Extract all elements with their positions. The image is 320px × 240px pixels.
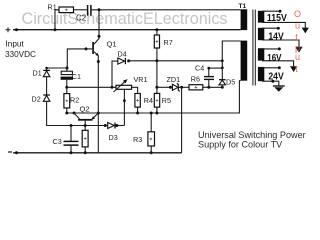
svg-text:C2: C2 xyxy=(76,14,87,23)
node 24V tap dot xyxy=(278,66,281,69)
svg-text:330VDC: 330VDC xyxy=(5,50,36,59)
svg-text:u: u xyxy=(295,52,300,62)
potentiometer VR1 xyxy=(114,79,132,92)
capacitor C1 electrolytic xyxy=(61,68,73,87)
wire 24V top tap xyxy=(262,67,279,69)
resistor R4 xyxy=(135,94,140,108)
wire 16V top tap xyxy=(262,48,279,50)
svg-text:T1: T1 xyxy=(239,3,247,10)
svg-text:CircuitSchematicELectronics: CircuitSchematicELectronics xyxy=(22,10,228,28)
node D4 anode stub junction xyxy=(111,86,114,89)
svg-text:R5: R5 xyxy=(162,96,171,105)
node rail input xyxy=(15,151,18,154)
node emitter resistor on rail xyxy=(84,151,87,154)
node C3 top xyxy=(70,124,73,127)
node C1 top junction xyxy=(66,67,69,70)
wire D4 anode stub xyxy=(112,61,118,87)
wire - rail (bottom return) xyxy=(13,152,182,154)
svg-text:C4: C4 xyxy=(195,63,204,72)
resistor Q2 emitter (unlabeled) xyxy=(82,126,88,153)
node corner at D5 branch xyxy=(221,59,224,62)
node C4 top xyxy=(207,67,210,70)
wire C4 top hook xyxy=(209,67,223,69)
resistor R7 xyxy=(154,30,159,61)
node 24V return dot xyxy=(271,80,274,83)
wire 115V top tap xyxy=(262,10,280,12)
output arrow 115V xyxy=(302,28,309,34)
wire ZD1 to R6 xyxy=(178,86,189,88)
wire D1 to D2 xyxy=(46,77,48,95)
wire C1 to R2 xyxy=(66,87,68,93)
svg-text:R2: R2 xyxy=(70,96,79,105)
wire + bus (top supply rail) xyxy=(13,29,241,31)
wire riser bus to R1 xyxy=(55,10,59,30)
svg-text:D2: D2 xyxy=(32,95,41,104)
wire R3 riser xyxy=(150,113,152,132)
svg-text:Input: Input xyxy=(6,40,25,49)
wire Q1 emitter vertical xyxy=(97,56,99,153)
capacitor C2 xyxy=(88,5,91,16)
transformer T1 core xyxy=(253,10,255,86)
resistor R1 xyxy=(59,7,74,13)
svg-text:C3: C3 xyxy=(53,137,62,146)
wire R6 to D5 node xyxy=(203,86,223,88)
ground 24V return xyxy=(273,86,285,92)
node snubber/collector junction xyxy=(98,8,101,11)
node C1 bottom junction xyxy=(65,86,68,89)
wire R7 node down to R5 xyxy=(156,61,158,94)
node D5 branch top xyxy=(221,66,224,69)
wire emitter node to VR1 xyxy=(67,86,116,88)
transformer primary winding bottom xyxy=(241,41,248,81)
input plus terminal xyxy=(6,27,11,32)
svg-text:u: u xyxy=(295,21,300,31)
capacitor C4 xyxy=(204,68,214,87)
wire 24V return to ground xyxy=(262,81,279,85)
node ZD1 anode xyxy=(169,86,172,89)
wire R5 to drive line xyxy=(156,107,158,113)
svg-text:Q1: Q1 xyxy=(107,39,117,48)
svg-text:R3: R3 xyxy=(133,135,142,144)
svg-text:R6: R6 xyxy=(191,74,200,83)
svg-text:16V: 16V xyxy=(267,52,281,64)
transformer secondary winding 16V xyxy=(258,48,264,60)
node R7 top on bus xyxy=(155,28,158,31)
node R3 on rail xyxy=(150,151,153,154)
svg-text:C1: C1 xyxy=(72,72,81,81)
node R5 bottom xyxy=(155,112,158,115)
svg-text:D3: D3 xyxy=(109,133,118,142)
node R5 top xyxy=(155,86,158,89)
node on collector wire xyxy=(98,35,101,38)
node on + bus at input xyxy=(15,28,18,31)
diode D4 xyxy=(118,58,130,64)
wire R3 to rail xyxy=(150,146,152,153)
svg-text:VR1: VR1 xyxy=(134,75,148,84)
node C3 on rail xyxy=(70,151,73,154)
svg-text:Q2: Q2 xyxy=(80,105,90,114)
zener ZD1 xyxy=(172,83,179,91)
diode D1 xyxy=(43,68,50,77)
svg-text:D4: D4 xyxy=(118,50,127,59)
resistor R2 xyxy=(64,94,70,108)
transformer secondary winding 24V xyxy=(258,67,264,81)
wire Q1 base xyxy=(67,49,92,68)
node on base wire xyxy=(85,47,88,50)
svg-text:Universal Switching Power: Universal Switching Power xyxy=(198,130,306,140)
node on riser xyxy=(123,99,126,102)
wire VR1 to R4 xyxy=(132,87,138,93)
node on + bus at R1 riser xyxy=(54,28,57,31)
node on emitter wire xyxy=(97,60,100,63)
output arrow 16V xyxy=(290,66,297,72)
wire riser to bottom rail xyxy=(181,87,183,153)
wire 14V return to output arrow xyxy=(262,40,299,47)
wire C2 to collector node xyxy=(92,9,241,11)
wire R4 to drive line xyxy=(137,107,139,113)
label Output (red vertical) xyxy=(294,9,301,74)
wire D3 riser to VR1 wiper xyxy=(123,89,125,126)
wire R1 to C2 xyxy=(74,9,87,11)
transformer primary winding top xyxy=(241,9,248,30)
transistor Q2 xyxy=(73,112,100,126)
wire 14V top tap xyxy=(262,27,278,29)
svg-text:R1: R1 xyxy=(48,3,57,12)
wire drive line to transformer return xyxy=(67,81,241,113)
node C4 bottom xyxy=(207,86,210,89)
node Q2 base junction xyxy=(84,124,87,127)
output arrow 14V xyxy=(295,47,302,53)
svg-text:R4: R4 xyxy=(144,96,153,105)
wire long horizontal D4 to transformer xyxy=(129,41,241,61)
wire D2 down and across to Q2 emitter / D3 xyxy=(47,101,106,125)
input minus terminal xyxy=(8,151,12,153)
resistor R3 xyxy=(148,132,155,146)
node 14V tap dot xyxy=(277,27,280,30)
transformer secondary winding 14V xyxy=(258,28,264,40)
svg-text:O: O xyxy=(294,9,301,19)
wire D1 to C1 junction xyxy=(47,67,67,69)
diode D2 xyxy=(43,95,50,101)
transistor Q1 xyxy=(92,42,99,56)
node D5 anode xyxy=(221,86,224,89)
node R7/R5 junction on long wire xyxy=(155,59,158,62)
wire ZD1 row xyxy=(157,86,173,88)
diode D5 xyxy=(219,61,226,88)
node 16V tap dot xyxy=(278,47,281,50)
wire 16V return to output arrow xyxy=(262,61,294,67)
wire 115V return to output arrow xyxy=(262,22,305,28)
svg-text:ZD1: ZD1 xyxy=(167,75,181,84)
transformer secondary winding 115V xyxy=(258,11,264,23)
resistor R6 xyxy=(189,85,203,90)
node rail riser junction xyxy=(180,86,183,89)
wire R2 to drive line xyxy=(66,108,68,113)
svg-text:D5: D5 xyxy=(226,78,235,87)
resistor R5 xyxy=(154,93,159,107)
capacitor C3 xyxy=(64,126,79,153)
svg-text:R7: R7 xyxy=(164,38,173,47)
svg-text:24V: 24V xyxy=(268,70,283,82)
node D1 top xyxy=(45,67,48,70)
wire Q1 collector drop xyxy=(94,10,99,45)
node R4 bottom xyxy=(136,112,139,115)
svg-text:Supply for Colour TV: Supply for Colour TV xyxy=(198,139,283,149)
svg-text:D1: D1 xyxy=(33,68,42,77)
node R3 top xyxy=(150,112,153,115)
node 115V tap dot xyxy=(279,10,282,13)
diode D3 xyxy=(104,123,125,129)
node R2 bottom xyxy=(65,112,68,115)
